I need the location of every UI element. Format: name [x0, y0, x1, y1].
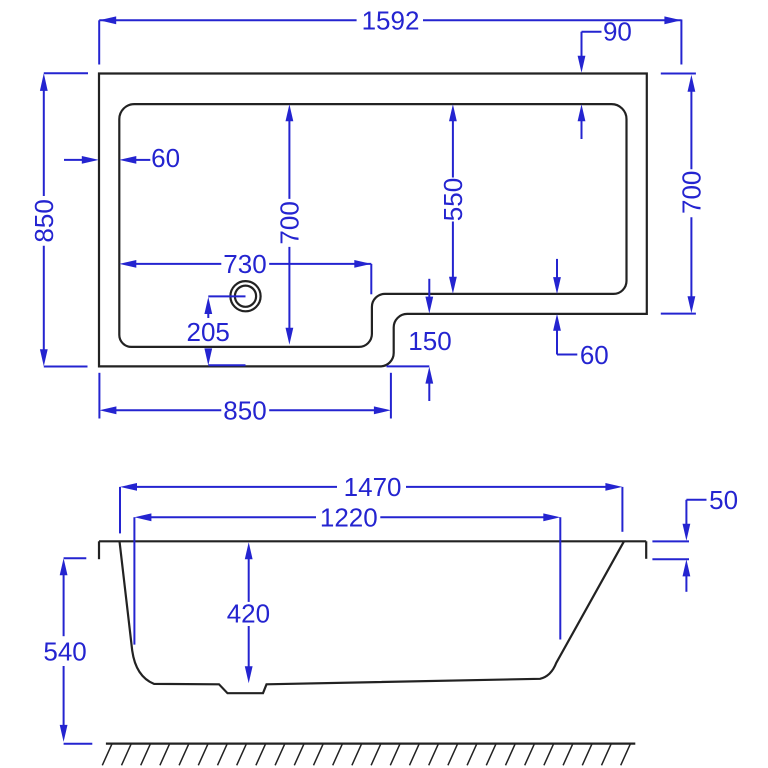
- svg-text:60: 60: [151, 143, 180, 173]
- svg-text:60: 60: [580, 340, 609, 370]
- svg-text:1220: 1220: [320, 503, 378, 533]
- svg-text:150: 150: [408, 326, 451, 356]
- svg-text:1592: 1592: [362, 6, 420, 36]
- svg-text:730: 730: [223, 249, 266, 279]
- svg-text:550: 550: [438, 178, 468, 221]
- svg-text:205: 205: [187, 317, 230, 347]
- svg-text:700: 700: [677, 171, 707, 214]
- svg-text:1470: 1470: [344, 472, 402, 502]
- svg-text:700: 700: [275, 201, 305, 244]
- svg-text:850: 850: [223, 396, 266, 426]
- svg-text:50: 50: [709, 485, 738, 515]
- svg-text:420: 420: [227, 599, 270, 629]
- svg-text:540: 540: [43, 636, 86, 666]
- svg-text:90: 90: [603, 16, 632, 46]
- svg-text:850: 850: [29, 199, 59, 242]
